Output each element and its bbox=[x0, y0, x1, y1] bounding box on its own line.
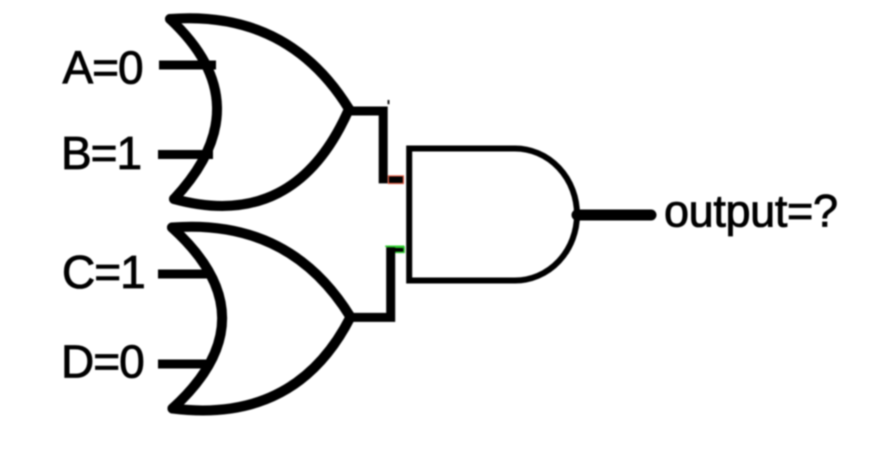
node Y green top edge bbox=[385, 245, 404, 247]
svg-text:D=0: D=0 bbox=[61, 336, 144, 388]
wire input B bbox=[158, 150, 213, 159]
svg-text:A=0: A=0 bbox=[63, 42, 143, 94]
svg-text:B=1: B=1 bbox=[61, 127, 141, 179]
wire input C bbox=[158, 270, 213, 279]
or-gate OR1 (inputs A,B) bbox=[170, 18, 349, 206]
wire input D bbox=[158, 360, 211, 369]
wire input A bbox=[159, 61, 216, 70]
wire OR1 output to AND input 1 bbox=[349, 111, 383, 183]
tick mark above node X bbox=[388, 100, 390, 104]
svg-text:output=?: output=? bbox=[664, 185, 838, 236]
svg-text:C=1: C=1 bbox=[62, 246, 145, 298]
or-gate OR2 (inputs C,D) bbox=[172, 227, 351, 411]
and-gate U1 bbox=[409, 149, 577, 281]
wire OR2 output to AND input 2 bbox=[351, 247, 391, 317]
node Y stub (green-boxed junction at AND input 2) bbox=[388, 247, 405, 252]
node X stub (red-boxed junction at AND input 1) bbox=[388, 176, 403, 184]
wire output bbox=[577, 210, 651, 221]
